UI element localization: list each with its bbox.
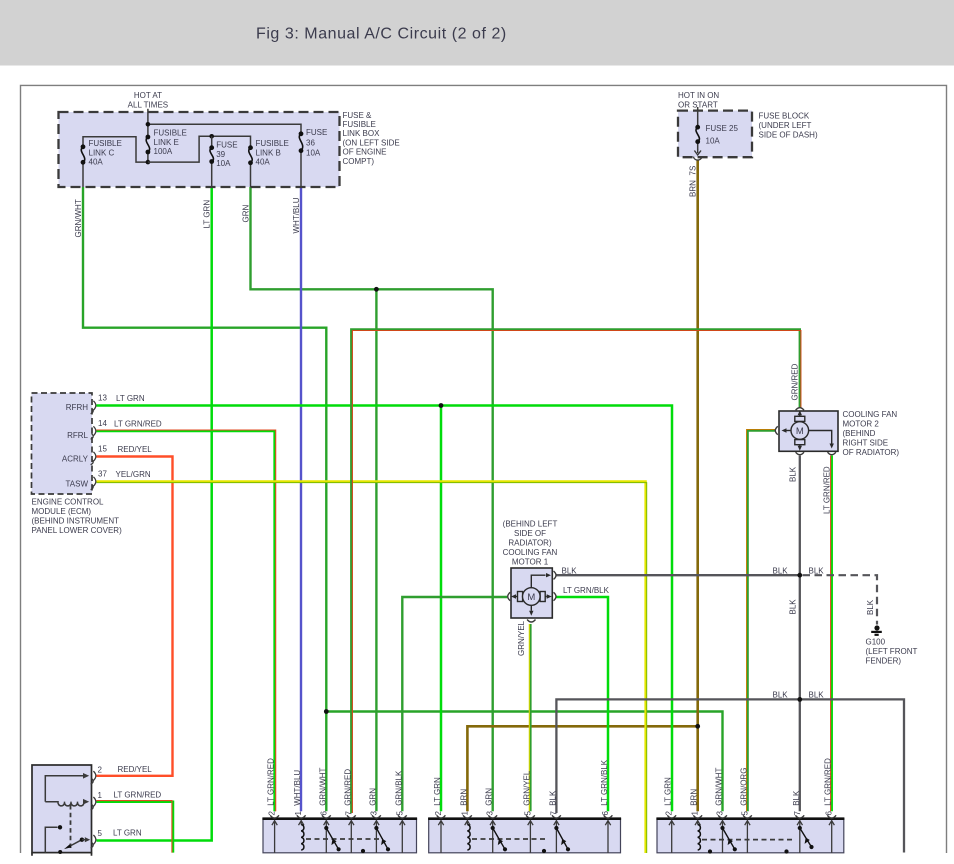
svg-text:6: 6 <box>825 811 834 816</box>
svg-text:FUSIBLE: FUSIBLE <box>343 120 376 129</box>
relay1 pin 5 connector <box>91 835 96 848</box>
svg-text:BRN: BRN <box>690 789 699 806</box>
svg-text:GRN: GRN <box>368 788 377 806</box>
svg-text:MOTOR 2: MOTOR 2 <box>843 420 880 429</box>
motor 2 top connector GRN/RED <box>796 408 804 411</box>
wire BLK from junction to box3 pin7 <box>799 699 801 811</box>
svg-text:GRN/WHT: GRN/WHT <box>715 767 724 805</box>
svg-text:G100: G100 <box>866 638 886 647</box>
svg-text:BLK: BLK <box>562 566 578 575</box>
svg-text:GRN/RED: GRN/RED <box>343 769 352 806</box>
svg-text:LINK BOX: LINK BOX <box>343 129 381 138</box>
svg-text:ACRLY: ACRLY <box>62 455 89 464</box>
svg-text:OF RADIATOR): OF RADIATOR) <box>843 448 900 457</box>
svg-text:5: 5 <box>740 811 749 816</box>
svg-text:(BEHIND: (BEHIND <box>843 429 876 438</box>
svg-text:M: M <box>527 592 535 603</box>
fuse block (under left side of dash) <box>678 111 752 158</box>
box3 dashed actuator <box>702 839 795 841</box>
svg-text:FUSIBLE: FUSIBLE <box>89 139 122 148</box>
svg-text:FUSE &: FUSE & <box>343 111 373 120</box>
wire LT GRN/RED from ECM pin 14 to box1 pin2 <box>97 431 275 811</box>
svg-text:LINK B: LINK B <box>256 148 281 157</box>
svg-text:YEL/GRN: YEL/GRN <box>116 470 151 479</box>
motor 1 left connector <box>508 592 511 600</box>
svg-text:LT GRN/RED: LT GRN/RED <box>114 791 162 800</box>
wire RED/YEL from ECM pin 15 to relay1 pin 2 <box>97 457 173 776</box>
svg-text:40A: 40A <box>89 158 104 167</box>
wire LT GRN/RED from motor 2 to box3 pin6 <box>830 456 833 812</box>
svg-text:LT GRN: LT GRN <box>203 200 212 229</box>
wire step from link C to link E <box>83 137 148 162</box>
svg-text:BLK: BLK <box>773 690 789 699</box>
svg-text:(BEHIND INSTRUMENT: (BEHIND INSTRUMENT <box>32 517 120 526</box>
svg-text:5: 5 <box>98 829 103 838</box>
ECM pin 14 connector <box>91 426 96 439</box>
box3 contact dots <box>708 849 712 853</box>
box3 coil <box>698 825 701 851</box>
wire GRN/WHT branch to box3 pin3 <box>326 712 722 812</box>
arrow into pin 5 <box>82 839 85 841</box>
relay1 pin 2 connector <box>91 771 96 784</box>
svg-text:ALL TIMES: ALL TIMES <box>128 101 168 110</box>
wire LT GRN from ECM pin 13 to box3 pin2 <box>97 406 673 812</box>
svg-text:FUSIBLE: FUSIBLE <box>154 129 187 138</box>
arrow fuse block output <box>694 149 701 155</box>
motor 1 arrows <box>531 575 545 588</box>
fusible link B 40A <box>248 145 253 187</box>
svg-text:COOLING FAN: COOLING FAN <box>843 410 898 419</box>
svg-text:GRN/WHT: GRN/WHT <box>318 767 327 805</box>
box2 dashed actuator <box>472 838 548 840</box>
fuse and fusible link box <box>59 112 340 187</box>
wire YEL/GRN from ECM pin 37 down off page <box>97 482 646 854</box>
svg-text:FUSE 25: FUSE 25 <box>706 124 739 133</box>
svg-text:LT GRN: LT GRN <box>113 829 142 838</box>
svg-text:BLK: BLK <box>789 599 798 615</box>
svg-text:BLK: BLK <box>548 790 557 806</box>
relay1 dashed actuator line <box>70 805 72 849</box>
wire GRN branch to box1 pin3 <box>375 289 377 811</box>
relay1 switch blade <box>68 840 82 848</box>
svg-text:BLK: BLK <box>792 790 801 806</box>
svg-text:FUSIBLE: FUSIBLE <box>256 139 289 148</box>
cooling fan motor 1 box <box>511 568 552 618</box>
node junction fuse 39 top <box>209 134 214 139</box>
box2 contact dot <box>542 849 546 853</box>
node junction LT GRN <box>439 403 444 408</box>
svg-text:OF ENGINE: OF ENGINE <box>343 148 387 157</box>
svg-text:LT GRN: LT GRN <box>664 777 673 806</box>
svg-text:LT GRN/BLK: LT GRN/BLK <box>563 586 610 595</box>
connector 7S <box>693 157 702 160</box>
svg-text:LT GRN: LT GRN <box>116 394 145 403</box>
svg-text:MOTOR 1: MOTOR 1 <box>512 558 549 567</box>
wire BLK from motor 1 to junction <box>556 574 800 576</box>
svg-text:6: 6 <box>601 811 610 816</box>
svg-text:LINK C: LINK C <box>89 148 115 157</box>
node junction link E bottom <box>146 160 151 165</box>
svg-text:FUSE: FUSE <box>306 128 327 137</box>
svg-text:BLK: BLK <box>773 566 789 575</box>
relay1 corner serifs <box>32 853 92 856</box>
wire BLK from box2 pin7 across to right edge <box>556 699 904 852</box>
fuse 36 10A <box>299 131 304 187</box>
relay1 switch contact <box>45 827 57 852</box>
svg-text:2: 2 <box>434 811 443 816</box>
node junction GRN/WHT <box>324 709 329 714</box>
wire GRN from fusible link B to box2 pin3 <box>251 187 493 811</box>
box2 switch blade A <box>493 828 505 849</box>
svg-text:40A: 40A <box>256 158 271 167</box>
wire BRN from fuse 25 to box3 pin1 <box>696 161 699 812</box>
svg-text:1: 1 <box>294 811 303 816</box>
svg-text:OR START: OR START <box>678 101 718 110</box>
svg-text:GRN/WHT: GRN/WHT <box>74 199 83 237</box>
box3 pin connectors and arrows <box>667 815 836 818</box>
svg-text:7: 7 <box>793 811 802 816</box>
svg-text:2: 2 <box>665 811 674 816</box>
svg-text:BLK: BLK <box>789 466 798 482</box>
node junction BRN <box>695 724 700 729</box>
svg-text:GRN/YEL: GRN/YEL <box>517 620 526 656</box>
svg-text:(UNDER LEFT: (UNDER LEFT <box>759 121 812 130</box>
arrow into pin 2 <box>83 773 89 779</box>
svg-text:5: 5 <box>523 811 532 816</box>
svg-text:LT GRN/RED: LT GRN/RED <box>823 466 832 514</box>
ECM pin 37 connector <box>91 477 96 490</box>
wire GRN/ORG from motor 2 to box3 pin5 <box>748 431 776 812</box>
svg-text:RFRH: RFRH <box>66 403 88 412</box>
box1 switch blade B <box>376 828 388 849</box>
relay 1 box (bottom left) <box>32 765 92 853</box>
box2 pin connectors and arrows <box>437 815 613 818</box>
ECM pin 13 connector <box>91 401 96 414</box>
wire GRN/RED from box1 pin7 to cooling fan motor 2 <box>351 329 800 813</box>
svg-text:WHT/BLU: WHT/BLU <box>293 770 302 806</box>
box1 switch blade A <box>326 828 338 849</box>
wire fuse 39 feed <box>211 136 213 147</box>
svg-text:PANEL LOWER COVER): PANEL LOWER COVER) <box>32 526 123 535</box>
fuse 25 10A <box>695 125 700 150</box>
svg-text:FENDER): FENDER) <box>866 657 902 666</box>
svg-text:RFRL: RFRL <box>67 431 88 440</box>
svg-text:LINK E: LINK E <box>154 138 179 147</box>
motor 2 arrows <box>799 415 801 417</box>
svg-text:6: 6 <box>319 811 328 816</box>
motor 1 bottom connector GRN/YEL <box>527 620 535 623</box>
box1 dashed actuator <box>306 838 383 840</box>
svg-text:FUSE BLOCK: FUSE BLOCK <box>759 112 810 121</box>
fusible link C 40A <box>81 144 86 187</box>
svg-text:7S: 7S <box>689 166 698 176</box>
svg-text:BLK: BLK <box>866 599 875 615</box>
svg-text:LT GRN/RED: LT GRN/RED <box>114 419 162 428</box>
box3 switch blade B <box>800 828 812 847</box>
wire BLK dashed to ground G100 <box>803 575 878 624</box>
wire feed HOT AT ALL TIMES <box>147 109 149 137</box>
wire LT GRN/BLK from motor 1 to box2 pin6 <box>556 597 608 811</box>
svg-text:1: 1 <box>460 811 469 816</box>
svg-text:(BEHIND LEFT: (BEHIND LEFT <box>503 520 558 529</box>
wire LT GRN branch to box2 pin2 <box>440 406 443 812</box>
svg-text:SIDE OF DASH): SIDE OF DASH) <box>759 131 818 140</box>
ground G100 <box>871 625 882 634</box>
relay1 internal wire to pin 2 <box>45 776 83 802</box>
svg-text:BRN: BRN <box>459 789 468 806</box>
svg-text:(LEFT FRONT: (LEFT FRONT <box>866 647 918 656</box>
fusible link E 100A <box>146 135 151 163</box>
svg-text:3: 3 <box>716 811 725 816</box>
motor 1 symbol <box>518 588 546 606</box>
svg-text:5: 5 <box>395 811 404 816</box>
svg-text:(ON LEFT SIDE: (ON LEFT SIDE <box>343 138 400 147</box>
wire step from link E to fuse 39 and link B <box>148 136 251 162</box>
wire GRN/BLK from motor 1 to box1 pin5 <box>402 597 507 811</box>
svg-text:2: 2 <box>268 811 277 816</box>
svg-text:GRN: GRN <box>241 205 250 223</box>
box1 coil <box>301 825 304 851</box>
motor 2 bottom connector LT GRN/RED <box>828 452 836 455</box>
svg-text:13: 13 <box>98 393 107 402</box>
wire BLK from motor 2 down <box>799 456 801 700</box>
svg-text:3: 3 <box>486 811 495 816</box>
svg-text:GRN/BLK: GRN/BLK <box>394 770 403 806</box>
wire BRN branch to box2 pin1 <box>467 726 697 811</box>
ECM box <box>32 393 93 494</box>
svg-text:LT GRN/BLK: LT GRN/BLK <box>600 759 609 806</box>
header bar <box>0 0 954 66</box>
svg-text:RED/YEL: RED/YEL <box>118 445 153 454</box>
motor 2 bottom connector BLK <box>796 452 804 455</box>
svg-text:14: 14 <box>98 419 107 428</box>
svg-text:MODULE (ECM): MODULE (ECM) <box>32 507 92 516</box>
svg-text:7: 7 <box>549 811 558 816</box>
motor 1 right connector LT GRN/BLK <box>554 592 557 600</box>
svg-text:10A: 10A <box>706 137 721 146</box>
box2 coil <box>467 825 470 851</box>
svg-text:37: 37 <box>98 469 107 478</box>
svg-text:GRN/RED: GRN/RED <box>791 363 800 400</box>
ECM pin 15 connector <box>91 452 96 465</box>
wire LT GRN from fuse 39 to relay1 pin 5 <box>97 187 212 841</box>
connector box 3 (bottom) <box>657 819 844 853</box>
node junction feed <box>146 122 151 127</box>
node junction GRN <box>374 287 379 292</box>
svg-text:GRN/ORG: GRN/ORG <box>739 768 748 806</box>
wire feed HOT IN ON OR START <box>697 107 699 127</box>
svg-text:Fig 3: Manual A/C Circuit (2 o: Fig 3: Manual A/C Circuit (2 of 2) <box>256 26 507 43</box>
motor 2 left connector GRN/ORG <box>775 426 778 434</box>
motor 1 right connector BLK <box>554 571 557 579</box>
connector box 2 (bottom) <box>429 819 621 853</box>
svg-text:2: 2 <box>98 765 103 774</box>
svg-text:1: 1 <box>691 811 700 816</box>
wire LT GRN/RED from relay1 pin 1 down off page <box>97 802 174 853</box>
relay1 coil <box>45 802 84 806</box>
svg-text:FUSE: FUSE <box>216 141 237 150</box>
svg-text:RADIATOR): RADIATOR) <box>508 539 552 548</box>
wire GRN/YEL from motor 1 to box2 pin5 <box>529 624 531 811</box>
motor 2 symbol <box>791 416 809 444</box>
node junction BLK lower <box>797 697 802 702</box>
svg-text:15: 15 <box>98 444 107 453</box>
svg-text:ENGINE CONTROL: ENGINE CONTROL <box>32 498 105 507</box>
box1 contact dot <box>361 849 365 853</box>
svg-text:BRN: BRN <box>689 180 698 197</box>
svg-text:M: M <box>796 426 804 437</box>
svg-text:BLK: BLK <box>809 690 825 699</box>
box3 switch blade A <box>723 828 735 849</box>
svg-text:36: 36 <box>306 138 315 147</box>
svg-text:COOLING FAN: COOLING FAN <box>503 548 558 557</box>
relay1 pin 1 connector <box>91 797 96 810</box>
svg-text:GRN/YEL: GRN/YEL <box>522 770 531 806</box>
svg-text:GRN: GRN <box>485 788 494 806</box>
wire bus to fuse 36 <box>148 124 301 134</box>
box2 switch blade B <box>556 828 568 849</box>
fuse 39 10A <box>209 145 214 187</box>
arrow into pin 1 <box>83 799 89 805</box>
svg-text:COMPT): COMPT) <box>343 157 375 166</box>
svg-text:10A: 10A <box>306 149 321 158</box>
svg-text:100A: 100A <box>154 147 173 156</box>
wire GRN/WHT from fusible link C to box1 pin6 <box>83 187 326 811</box>
svg-text:WHT/BLU: WHT/BLU <box>292 197 301 233</box>
svg-text:BLK: BLK <box>809 566 825 575</box>
svg-text:LT GRN/RED: LT GRN/RED <box>824 758 833 806</box>
svg-text:39: 39 <box>216 150 225 159</box>
svg-text:HOT IN ON: HOT IN ON <box>678 91 719 100</box>
svg-text:LT GRN: LT GRN <box>433 777 442 806</box>
svg-text:RIGHT SIDE: RIGHT SIDE <box>843 439 889 448</box>
svg-text:HOT AT: HOT AT <box>134 91 162 100</box>
node junction BLK upper <box>797 573 802 578</box>
cooling fan motor 2 box <box>779 411 838 451</box>
svg-text:TASW: TASW <box>65 480 88 489</box>
svg-text:SIDE OF: SIDE OF <box>514 529 546 538</box>
svg-text:10A: 10A <box>216 159 231 168</box>
box1 pin connectors and arrows <box>270 815 407 818</box>
wire WHT/BLU from fuse 36 to box1 pin1 <box>300 187 302 811</box>
svg-text:1: 1 <box>98 791 103 800</box>
connector box 1 (bottom) <box>263 819 417 853</box>
svg-text:LT GRN/RED: LT GRN/RED <box>267 758 276 806</box>
svg-text:3: 3 <box>369 811 378 816</box>
svg-text:RED/YEL: RED/YEL <box>118 765 153 774</box>
svg-text:7: 7 <box>344 811 353 816</box>
